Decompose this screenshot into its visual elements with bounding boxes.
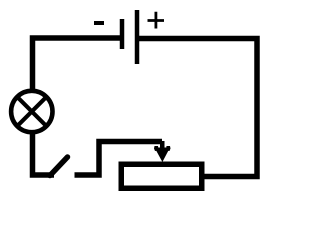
wire: from battery positive plate right, down right side to potentiometer right terminal bbox=[139, 39, 257, 177]
battery B1 negative plate (short) bbox=[120, 19, 125, 49]
label + (positive) bbox=[148, 12, 165, 29]
potentiometer wiper shaft bbox=[160, 141, 165, 151]
battery B1 positive plate (long) bbox=[135, 10, 140, 64]
potentiometer wiper arrowhead bbox=[155, 148, 171, 163]
switch S1 lever (open) bbox=[50, 157, 68, 176]
wire: from lamp bottom down to switch left contact bbox=[33, 133, 55, 175]
lamp L1 circle bbox=[11, 91, 52, 132]
lamp L1 cross bbox=[18, 98, 46, 126]
potentiometer R1 body bbox=[121, 164, 202, 188]
label - (negative) bbox=[94, 21, 104, 25]
wire: top-left from lamp up and right to battery negative plate bbox=[33, 38, 121, 90]
wire: from switch right contact right, up and over to potentiometer wiper bbox=[75, 142, 163, 176]
